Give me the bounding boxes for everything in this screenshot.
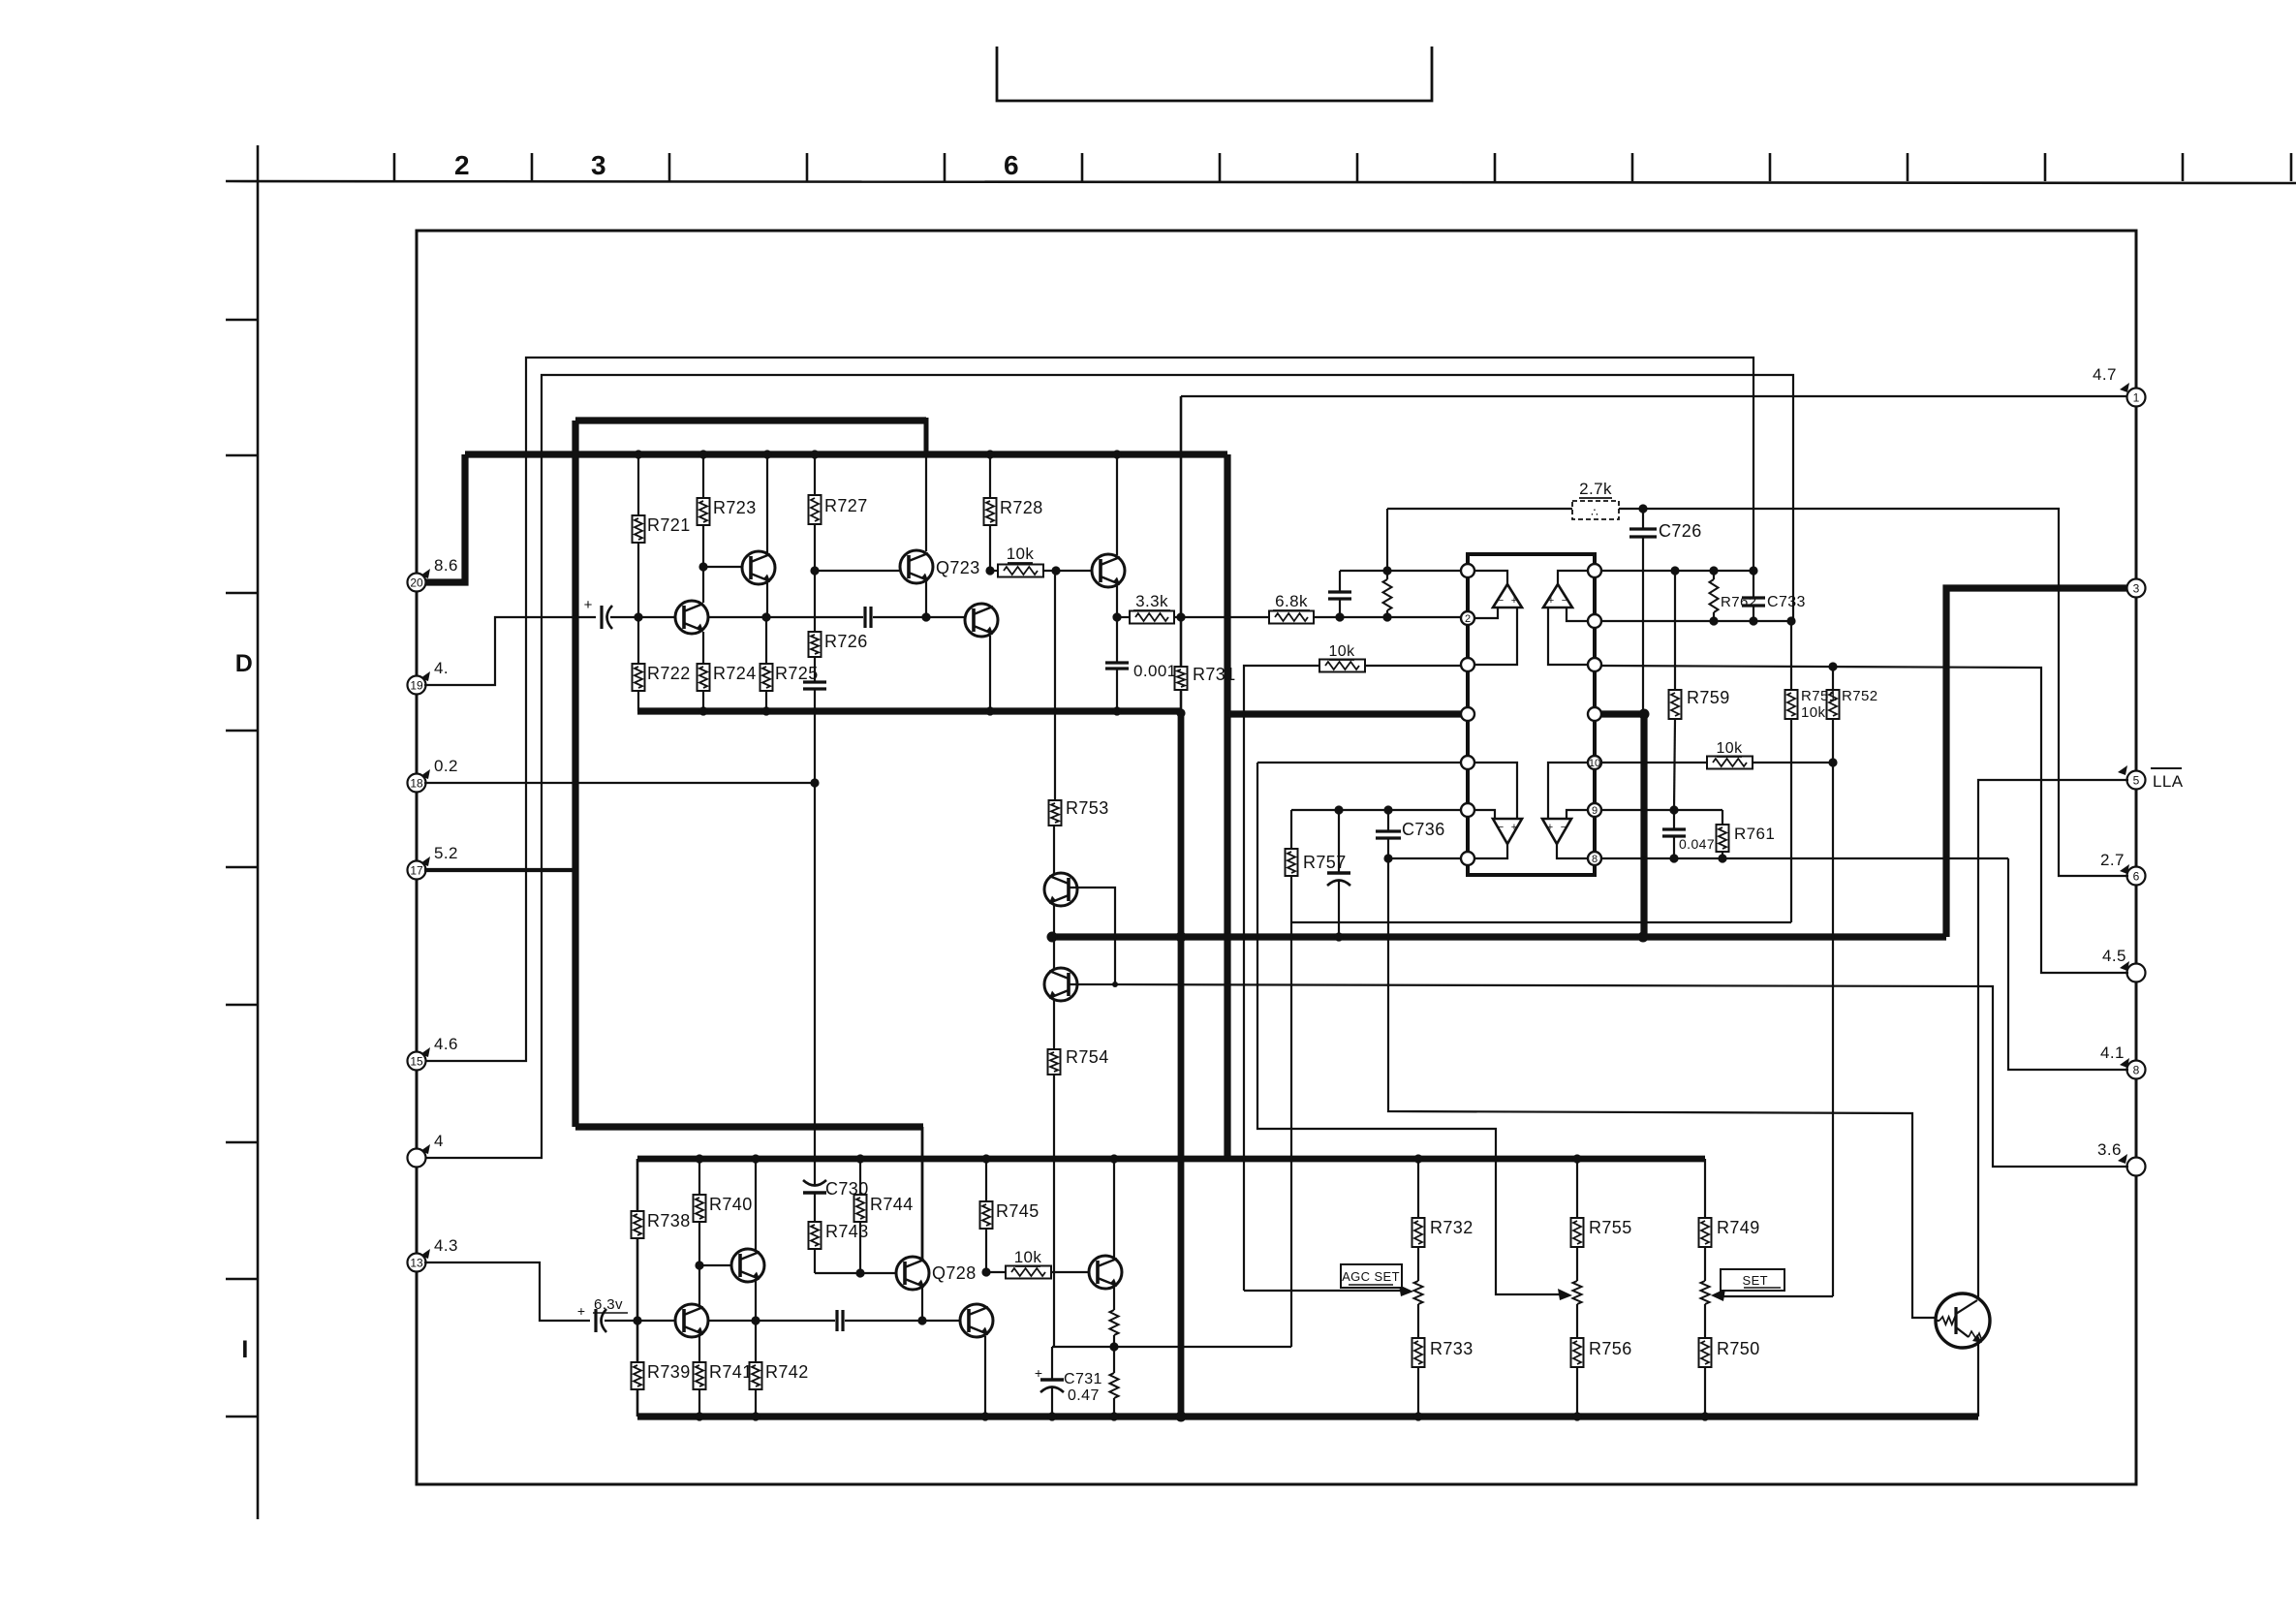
svg-text:0.2: 0.2 <box>434 757 458 775</box>
capacitor coupling mid lower <box>835 1310 838 1331</box>
junction thick rail left end <box>1047 932 1058 943</box>
svg-text:R725: R725 <box>775 664 819 683</box>
junction C726 top <box>1638 504 1647 513</box>
wire pin 3.6 long run <box>1070 984 2128 1167</box>
svg-text:4.1: 4.1 <box>2100 1044 2125 1062</box>
title box (open-top frame) <box>997 47 1432 101</box>
svg-text:10k: 10k <box>1014 1248 1042 1266</box>
thick bottom rail y1462 <box>637 1413 1978 1419</box>
connector pin (unnumbered) on left border <box>408 1149 426 1168</box>
wire pin 17 to shield edge <box>424 868 575 872</box>
ruler tick 15 <box>2290 153 2293 181</box>
resistor R742 <box>755 1321 757 1362</box>
wire row686 10k left riser <box>1244 666 1462 1291</box>
junction x1432 bottom <box>1382 612 1391 621</box>
junction T8 emitter node <box>751 1316 760 1324</box>
junction R740 top <box>695 1154 703 1163</box>
transistor T5 (output, upper) <box>1116 454 1118 555</box>
resistor R761 <box>1722 810 1723 825</box>
wire T7 collector/emitter column <box>698 1265 700 1306</box>
wire y1390 <box>1052 1346 1291 1348</box>
svg-text:R751: R751 <box>1801 688 1837 704</box>
ruler tick 10 <box>1631 153 1634 181</box>
svg-text:R738: R738 <box>647 1211 691 1231</box>
svg-text:−: − <box>1562 595 1567 607</box>
wire pin 1 to node V1 <box>1181 395 2128 397</box>
junction R745/10k/T9 collector <box>981 1267 990 1276</box>
ruler tick 7 <box>1219 153 1222 181</box>
junction T5 emitter node <box>1112 612 1121 621</box>
connector pin 3 on right border <box>2127 579 2146 598</box>
wire IC row 787 right <box>1601 762 1707 763</box>
resistor R721 column <box>637 454 639 515</box>
junction Q723 base node <box>810 566 819 575</box>
junction row886 x1728 <box>1669 854 1678 862</box>
junction 10k/R753 <box>1051 566 1060 575</box>
left axis tick 9 <box>226 1416 258 1418</box>
junction row589 x1729 <box>1670 566 1679 575</box>
resistor 10k row686 <box>1319 660 1365 672</box>
wire TU base <box>1069 888 1115 984</box>
svg-text:R754: R754 <box>1066 1047 1109 1067</box>
resistor plain x1432 <box>1386 571 1388 579</box>
svg-text:SET: SET <box>1743 1273 1768 1288</box>
transistor Q723 <box>925 454 927 551</box>
label box SET <box>1721 1269 1784 1291</box>
svg-text:3: 3 <box>591 150 606 180</box>
junction T3 base node <box>698 562 707 571</box>
op-amp A2 (top-right) <box>1543 584 1572 607</box>
junction TU base riser on 3.6 wire <box>1112 981 1118 987</box>
left axis tick 4 <box>226 730 258 732</box>
wire column x841 down to lower block <box>814 783 816 1185</box>
svg-text:+: + <box>1548 595 1554 607</box>
svg-text:R744: R744 <box>870 1195 914 1214</box>
svg-text:R745: R745 <box>996 1201 1039 1221</box>
svg-text:+: + <box>1511 822 1517 833</box>
svg-text:LLA: LLA <box>2153 772 2184 791</box>
svg-text:13: 13 <box>410 1257 423 1270</box>
IC pin left y737 <box>1461 707 1474 721</box>
svg-text:3.6: 3.6 <box>2097 1140 2122 1159</box>
left axis tick 3 <box>226 592 258 595</box>
junction pin18/R726 column <box>810 778 819 787</box>
wire row787 left <box>1257 762 1461 763</box>
junction V1 signal <box>1176 612 1185 621</box>
junction elcap bottom on thick rail <box>1334 932 1343 941</box>
connector pin 19 on left border <box>408 676 426 695</box>
wire QR emitter to rail <box>1977 1343 1979 1417</box>
svg-text:5.2: 5.2 <box>434 844 458 862</box>
junction cap x1383 top <box>1335 612 1344 621</box>
schematic border frame <box>417 231 2136 1484</box>
wire IC row 638 left (from 6.8k) <box>1461 617 1463 618</box>
resistor R743 <box>814 1193 816 1222</box>
svg-text:4.5: 4.5 <box>2102 947 2126 965</box>
svg-text:R742: R742 <box>765 1362 809 1382</box>
junction T8 base node <box>695 1261 703 1269</box>
svg-text:R759: R759 <box>1687 688 1730 707</box>
ruler tick 1 <box>393 153 396 181</box>
resistor R725 <box>765 617 767 664</box>
svg-text:−: − <box>1561 822 1567 833</box>
capacitor below R726 <box>803 680 826 683</box>
resistor R741 <box>694 1362 706 1389</box>
capacitor input 6.3v (electrolytic) lower <box>594 1309 597 1332</box>
svg-text:−: − <box>1498 822 1504 833</box>
junction T8 collector top <box>751 1154 760 1163</box>
left axis tick 2 <box>226 454 258 457</box>
junction R733 bottom <box>1413 1412 1422 1420</box>
transistor T8 (second, lower) <box>755 1159 757 1251</box>
junction R727 top <box>810 450 819 458</box>
wire T2 collector/emitter column <box>702 567 704 603</box>
resistor R724 <box>698 664 710 691</box>
IC pin left y886 <box>1461 852 1474 865</box>
IC pin right y686 <box>1588 658 1601 671</box>
junction T10 emitter node <box>1109 1342 1118 1351</box>
svg-text:R721: R721 <box>647 515 691 535</box>
thick rail y737 to IC <box>1227 710 1462 717</box>
svg-text:9: 9 <box>1592 805 1598 817</box>
svg-text:Q728: Q728 <box>932 1263 977 1283</box>
svg-text:+: + <box>1547 822 1553 833</box>
junction row641 x1849 (W2 end) <box>1786 616 1795 625</box>
junction R744 top <box>855 1154 864 1163</box>
wire pin 18 run <box>424 782 815 784</box>
junction R742 bottom <box>751 1412 760 1420</box>
wire IC row 886 right <box>1601 857 2008 859</box>
left axis tick 1 <box>226 319 258 322</box>
capacitor C733 <box>1753 571 1754 598</box>
thick wire pin 20 riser <box>424 454 465 582</box>
wire R751 bottom to H2 <box>1790 719 1792 922</box>
resistor R726 <box>814 571 816 632</box>
svg-text:+: + <box>1511 595 1517 607</box>
resistor R745 column <box>985 1159 987 1201</box>
svg-text:10k: 10k <box>1007 545 1035 563</box>
ruler tick 11 <box>1769 153 1772 181</box>
resistor R751 <box>1790 621 1792 690</box>
IC pin right y737 <box>1588 707 1601 721</box>
junction T3 emitter node <box>761 612 770 621</box>
IC pin left y638 <box>1461 611 1474 625</box>
ruler tick 6 <box>1081 153 1084 181</box>
junction T3 collector top <box>762 450 771 458</box>
capacitor 0.047 <box>1673 810 1675 829</box>
svg-text:+: + <box>1035 1365 1042 1381</box>
resistor R757 column <box>1291 809 1461 811</box>
wire pin 8 riser <box>2008 858 2128 1070</box>
svg-text:D: D <box>235 650 253 677</box>
ruler tick 9 <box>1494 153 1497 181</box>
junction R724 bottom <box>698 706 707 715</box>
wire Q728 collector from shield corner <box>921 1127 924 1259</box>
svg-text:R755: R755 <box>1589 1218 1632 1237</box>
junction Q723 emitter node <box>921 612 930 621</box>
wire Q723 base <box>815 570 901 572</box>
connector pin 18 on left border <box>408 774 426 793</box>
svg-text:R753: R753 <box>1066 798 1109 818</box>
junction R723 top <box>698 450 707 458</box>
svg-text:15: 15 <box>410 1055 423 1069</box>
wire R755 wiper feed <box>1257 763 1564 1294</box>
thick top rail lower block y1196 <box>637 1156 1705 1163</box>
wire 2.7k rail <box>1387 509 2128 876</box>
svg-text:2: 2 <box>454 150 470 180</box>
transistor TL (middle lower, mirrored) <box>1053 937 1055 970</box>
IC pin right y641 <box>1588 614 1601 628</box>
svg-text:∴: ∴ <box>1591 506 1600 519</box>
capacitor at x1383 <box>1339 571 1341 592</box>
junction row836 elcap <box>1334 805 1343 814</box>
svg-text:R731: R731 <box>1193 665 1236 684</box>
resistor R732 column <box>1417 1159 1419 1218</box>
resistor 2.7k (dashed box) <box>1572 501 1619 519</box>
junction row641 x1769 <box>1709 616 1718 625</box>
svg-text:4.7: 4.7 <box>2093 365 2117 384</box>
svg-text:−: − <box>1498 595 1504 607</box>
svg-text:R739: R739 <box>647 1362 691 1382</box>
wire signal upper y637 <box>610 616 863 618</box>
wire net W2 from pin 4 loop (top) <box>424 375 1793 1158</box>
IC U1 outline <box>1468 554 1595 875</box>
junction R725 bottom <box>761 706 770 715</box>
resistor R723 column <box>702 454 704 498</box>
capacitor 0.001 <box>1116 617 1118 663</box>
thick shield lower edge y1163 <box>575 1123 923 1130</box>
svg-text:2.7: 2.7 <box>2100 851 2125 869</box>
svg-text:10k: 10k <box>1801 704 1825 721</box>
left axis tick 8 <box>226 1278 258 1281</box>
resistor R733 <box>1412 1338 1425 1367</box>
svg-text:C731: C731 <box>1064 1371 1102 1387</box>
wire IC row 836 right <box>1601 809 1722 811</box>
svg-text:+: + <box>577 1303 585 1319</box>
wire signal lower y1363 <box>605 1320 835 1322</box>
junction V1 ground rail <box>1176 708 1185 717</box>
svg-text:C733: C733 <box>1767 594 1806 610</box>
svg-text:6: 6 <box>1004 150 1019 180</box>
svg-text:R740: R740 <box>709 1195 753 1214</box>
svg-text:4.3: 4.3 <box>434 1236 458 1255</box>
resistor R755 column <box>1576 1159 1578 1218</box>
IC pin left y686 <box>1461 658 1474 671</box>
resistor R752 <box>1832 667 1834 690</box>
ruler tick 14 <box>2182 153 2185 181</box>
wire net W1 from pin 15 loop (top) <box>424 358 1753 1061</box>
thick node V1 vertical <box>1180 396 1183 667</box>
thick ground rail y734 (upper block) <box>637 707 1181 714</box>
svg-text:R728: R728 <box>1000 498 1043 517</box>
resistor R738 column <box>636 1159 639 1211</box>
svg-text:2.7k: 2.7k <box>1579 480 1612 498</box>
ruler tick 12 <box>1907 153 1909 181</box>
svg-text:R726: R726 <box>824 632 868 651</box>
wire T8 base <box>699 1264 740 1266</box>
connector pin 13 on left border <box>408 1254 426 1272</box>
ruler tick 4 <box>806 153 809 181</box>
left axis tick 7 <box>226 1141 258 1144</box>
junction row886 x1778 <box>1718 854 1726 862</box>
junction R756 bottom <box>1572 1412 1581 1420</box>
svg-text:19: 19 <box>410 679 423 693</box>
svg-text:10k: 10k <box>1717 740 1744 757</box>
junction 0.001 bottom <box>1112 706 1121 715</box>
junction R750 bottom <box>1700 1412 1709 1420</box>
svg-text:6.3v: 6.3v <box>594 1296 623 1313</box>
resistor 10k lower <box>986 1271 1006 1273</box>
op-amp A4 input wires <box>1548 763 1588 819</box>
wire row 886 left <box>1388 857 1461 859</box>
potentiometer R749 (SET) <box>1704 1247 1706 1281</box>
junction R738 column base <box>633 1316 641 1324</box>
thick rail y967 <box>1052 933 1946 940</box>
resistor 6.8k <box>1269 611 1314 624</box>
transistor T10 (output, lower) <box>1113 1159 1115 1258</box>
resistor R722 <box>637 617 639 664</box>
resistor 3.3k <box>1117 616 1130 618</box>
resistor plain lower x1150 <box>1113 1347 1115 1373</box>
resistor 10k row787 <box>1707 757 1753 769</box>
svg-text:17: 17 <box>410 864 423 878</box>
wire IC row 589 right <box>1601 570 1753 572</box>
op-amp A1 input wires <box>1474 571 1507 584</box>
svg-text:10: 10 <box>1589 758 1600 769</box>
wire IC row 641 right <box>1601 620 1791 622</box>
svg-text:R732: R732 <box>1430 1218 1474 1237</box>
junction Q728 emitter node <box>917 1316 926 1324</box>
svg-text:8: 8 <box>1592 854 1598 865</box>
junction thick rail x1219 <box>1176 932 1187 943</box>
junction R755 top <box>1572 1154 1581 1163</box>
junction thick rail x1696 <box>1638 932 1649 943</box>
wire IC row 686 to pin 4.5 <box>1601 666 2128 973</box>
junction T6 emitter bottom <box>985 706 994 715</box>
connector pin 8 on right border <box>2127 1061 2146 1079</box>
transistor T7 (input, lower) <box>675 1304 708 1337</box>
resistor R756 <box>1571 1338 1584 1367</box>
connector pin 20 on left border <box>408 574 426 592</box>
resistor R759 column with 0.047 cap <box>1674 571 1676 690</box>
IC pin right y836 <box>1588 803 1601 817</box>
transistor T2 (input, upper) <box>675 601 708 634</box>
svg-text:R724: R724 <box>713 664 757 683</box>
junction R745 top <box>981 1154 990 1163</box>
junction row589 x1769 <box>1709 566 1718 575</box>
wire pin 19 to input cap <box>424 617 596 685</box>
capacitor C730 (electrolytic, curve up) <box>803 1180 826 1186</box>
svg-text:R743: R743 <box>825 1222 869 1241</box>
svg-text:0.001: 0.001 <box>1133 662 1177 680</box>
transistor T6 (after cap, upper) <box>965 604 998 637</box>
junction R744 bottom <box>855 1268 864 1277</box>
junction R732 top <box>1413 1154 1422 1163</box>
junction T10 collector top <box>1109 1154 1118 1163</box>
IC pin right y886 <box>1588 852 1601 865</box>
connector pin 6 on right border <box>2127 867 2146 886</box>
svg-text:10k: 10k <box>1329 643 1356 660</box>
resistor R740 column <box>698 1159 700 1195</box>
svg-text:3: 3 <box>2133 582 2140 596</box>
ruler vertical axis <box>257 145 260 1519</box>
left axis tick 5 <box>226 866 258 869</box>
junction C736 row886 <box>1383 854 1392 862</box>
svg-text:5: 5 <box>2133 774 2140 788</box>
connector pin 15 on left border <box>408 1052 426 1071</box>
ruler tick 3 <box>668 153 671 181</box>
junction R741 bottom <box>695 1412 703 1420</box>
wire IC row 589 left <box>1340 570 1461 572</box>
transistor QR (right, resistor-equipped) <box>1936 1293 1990 1348</box>
wire H2 to R751 <box>1291 921 1791 923</box>
IC pin left y787 <box>1461 756 1474 769</box>
transistor T9 (after cap, lower) <box>960 1304 993 1337</box>
connector pin 17 on left border <box>408 861 426 880</box>
junction R728 top <box>985 450 994 458</box>
op-amp A3 (bottom-left) <box>1493 819 1522 844</box>
svg-text:R733: R733 <box>1430 1339 1474 1358</box>
junction C726/thick <box>1639 709 1650 720</box>
op-amp A3 input wires <box>1474 810 1495 819</box>
svg-text:R722: R722 <box>647 664 691 683</box>
svg-text:4: 4 <box>434 1132 444 1150</box>
svg-text:R741: R741 <box>709 1362 753 1382</box>
junction R721/R722 base <box>634 612 642 621</box>
svg-text:R727: R727 <box>824 496 868 515</box>
svg-text:Q723: Q723 <box>936 558 980 577</box>
svg-text:1: 1 <box>2133 391 2140 405</box>
svg-text:3.3k: 3.3k <box>1135 592 1168 610</box>
resistor R744 column <box>859 1159 861 1195</box>
svg-text:R749: R749 <box>1717 1218 1760 1237</box>
op-amp A4 (bottom-right) <box>1542 819 1571 844</box>
connector pin (4.5) on right border <box>2127 964 2146 982</box>
ruler tick 13 <box>2044 153 2047 181</box>
wire AGC SET arrow <box>1244 1290 1405 1292</box>
IC pin right y589 <box>1588 564 1601 577</box>
ruler tick 5 <box>944 153 946 181</box>
op-amp A1 (top-left) <box>1493 584 1522 607</box>
svg-text:2: 2 <box>1465 613 1471 625</box>
capacitor C726 <box>1642 509 1644 529</box>
junction T9 emitter bottom <box>980 1412 989 1420</box>
ruler tick 8 <box>1356 153 1359 181</box>
wire R752 bottom long riser <box>1832 719 1834 1296</box>
junction T5 collector top <box>1112 450 1121 458</box>
IC pin left y836 <box>1461 803 1474 817</box>
wire pin 13 to input cap lower <box>424 1262 590 1321</box>
thick shield left edge x594 <box>572 421 578 1127</box>
thick stub x956 <box>924 418 929 454</box>
op-amp A2 input wires <box>1558 571 1588 584</box>
junction x1432 top <box>1382 566 1391 575</box>
svg-text:R750: R750 <box>1717 1339 1760 1358</box>
junction row836 x1728 <box>1669 805 1678 814</box>
thick supply rail y469 <box>465 451 1227 457</box>
svg-text:R756: R756 <box>1589 1339 1632 1358</box>
svg-text:0.047: 0.047 <box>1679 836 1715 852</box>
junction row641 x1810 <box>1749 616 1757 625</box>
wire T6 emitter down <box>989 636 991 711</box>
resistor R753 column <box>1054 571 1056 800</box>
svg-text:4.: 4. <box>434 659 449 677</box>
capacitor C731 0.47 (electrolytic) <box>1051 1347 1053 1380</box>
wire Q728 base <box>815 1272 905 1274</box>
capacitor input coupling (electrolytic) upper <box>600 606 603 629</box>
connector pin 1 on right border <box>2127 389 2146 407</box>
wire SET wiper from R752 riser <box>1719 1295 1833 1297</box>
